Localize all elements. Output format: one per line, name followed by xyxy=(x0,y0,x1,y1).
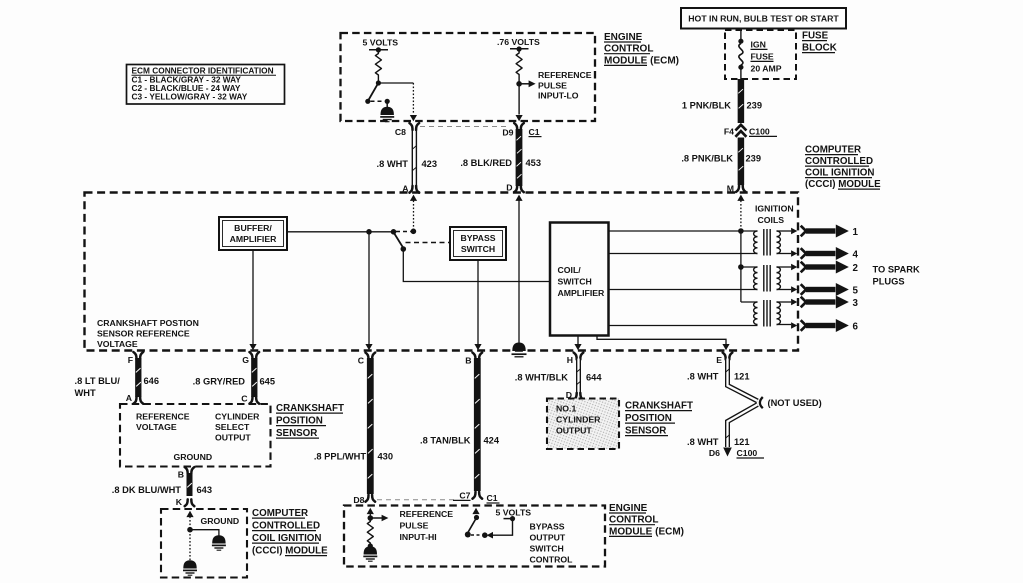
svg-text:.76 VOLTS: .76 VOLTS xyxy=(497,37,540,47)
svg-text:C: C xyxy=(241,393,248,403)
svg-text:VOLTAGE: VOLTAGE xyxy=(97,339,138,349)
svg-text:.8 LT BLU/: .8 LT BLU/ xyxy=(75,376,121,386)
svg-text:5 VOLTS: 5 VOLTS xyxy=(496,508,532,518)
svg-text:C1: C1 xyxy=(529,127,540,137)
svg-text:BLOCK: BLOCK xyxy=(802,43,837,54)
svg-text:COMPUTER: COMPUTER xyxy=(805,145,861,156)
svg-text:646: 646 xyxy=(144,376,160,386)
svg-text:2: 2 xyxy=(853,263,859,274)
svg-text:C1: C1 xyxy=(487,493,498,503)
svg-text:643: 643 xyxy=(197,485,213,495)
svg-text:1: 1 xyxy=(853,227,859,238)
svg-text:D6: D6 xyxy=(709,448,720,458)
svg-text:CONTROL: CONTROL xyxy=(609,515,658,526)
svg-text:(NOT USED): (NOT USED) xyxy=(768,398,822,408)
svg-text:121: 121 xyxy=(734,372,750,382)
svg-text:.8 BLK/RED: .8 BLK/RED xyxy=(460,158,512,168)
svg-text:CONTROLLED: CONTROLLED xyxy=(252,521,320,532)
svg-text:E: E xyxy=(716,355,722,365)
svg-text:PLUGS: PLUGS xyxy=(873,277,905,287)
svg-text:C7: C7 xyxy=(459,491,470,501)
svg-text:424: 424 xyxy=(484,436,500,446)
svg-text:CONTROL: CONTROL xyxy=(530,555,574,565)
svg-text:PULSE: PULSE xyxy=(538,80,567,90)
svg-text:F4: F4 xyxy=(724,126,734,136)
svg-text:SWITCH: SWITCH xyxy=(530,544,564,554)
svg-text:WHT: WHT xyxy=(75,388,96,398)
svg-text:MODULE (ECM): MODULE (ECM) xyxy=(604,55,679,66)
svg-text:AMPLIFIER: AMPLIFIER xyxy=(230,234,278,244)
svg-text:121: 121 xyxy=(734,437,750,447)
svg-text:COILS: COILS xyxy=(758,215,785,225)
svg-text:GROUND: GROUND xyxy=(174,452,213,462)
svg-text:AMPLIFIER: AMPLIFIER xyxy=(558,288,606,298)
svg-text:3: 3 xyxy=(853,298,859,309)
svg-text:SENSOR: SENSOR xyxy=(276,428,317,439)
svg-text:C8: C8 xyxy=(395,127,406,137)
svg-text:B: B xyxy=(178,469,184,479)
svg-text:D: D xyxy=(506,182,512,192)
svg-text:453: 453 xyxy=(526,158,542,168)
svg-text:COIL/: COIL/ xyxy=(558,265,582,275)
svg-text:REFERENCE: REFERENCE xyxy=(538,70,592,80)
svg-text:BYPASS: BYPASS xyxy=(530,522,565,532)
svg-text:645: 645 xyxy=(260,376,276,386)
svg-text:SENSOR REFERENCE: SENSOR REFERENCE xyxy=(97,329,190,339)
svg-text:SWITCH: SWITCH xyxy=(461,244,495,254)
svg-text:IGN: IGN xyxy=(751,40,766,50)
svg-text:CRANKSHAFT POSTION: CRANKSHAFT POSTION xyxy=(97,318,199,328)
svg-text:SELECT: SELECT xyxy=(215,422,250,432)
svg-text:NO.1: NO.1 xyxy=(556,404,576,414)
svg-text:1 PNK/BLK: 1 PNK/BLK xyxy=(682,101,731,111)
svg-text:OUTPUT: OUTPUT xyxy=(556,426,592,436)
svg-text:.8 GRY/RED: .8 GRY/RED xyxy=(193,376,246,386)
svg-text:OUTPUT: OUTPUT xyxy=(530,533,566,543)
svg-text:REFERENCE: REFERENCE xyxy=(136,411,190,421)
svg-text:H: H xyxy=(567,355,573,365)
svg-text:HOT IN RUN, BULB TEST OR START: HOT IN RUN, BULB TEST OR START xyxy=(688,14,839,24)
svg-text:.8 WHT: .8 WHT xyxy=(687,437,719,447)
svg-text:REFERENCE: REFERENCE xyxy=(400,509,454,519)
svg-text:4: 4 xyxy=(853,249,859,260)
svg-text:SWITCH: SWITCH xyxy=(558,277,592,287)
svg-text:CRANKSHAFT: CRANKSHAFT xyxy=(625,401,693,412)
svg-text:COIL IGNITION: COIL IGNITION xyxy=(805,168,875,179)
svg-text:A: A xyxy=(126,393,133,403)
svg-text:K: K xyxy=(176,497,183,507)
svg-text:BYPASS: BYPASS xyxy=(460,233,495,243)
svg-text:.8 DK BLU/WHT: .8 DK BLU/WHT xyxy=(112,485,182,495)
svg-text:OUTPUT: OUTPUT xyxy=(215,433,251,443)
svg-text:(CCCI) MODULE: (CCCI) MODULE xyxy=(805,179,881,190)
svg-text:C100: C100 xyxy=(749,126,770,136)
svg-text:POSITION: POSITION xyxy=(625,413,672,424)
svg-text:MODULE (ECM): MODULE (ECM) xyxy=(609,526,684,537)
svg-text:SENSOR: SENSOR xyxy=(625,426,666,437)
svg-text:(CCCI) MODULE: (CCCI) MODULE xyxy=(252,546,328,557)
svg-text:.8 PPL/WHT: .8 PPL/WHT xyxy=(314,452,366,462)
svg-text:.8 WHT: .8 WHT xyxy=(376,159,408,169)
svg-text:C100: C100 xyxy=(737,448,758,458)
svg-text:239: 239 xyxy=(746,154,762,164)
svg-text:5 VOLTS: 5 VOLTS xyxy=(363,38,399,48)
svg-text:.8 TAN/BLK: .8 TAN/BLK xyxy=(420,436,471,446)
svg-text:5: 5 xyxy=(853,285,859,296)
svg-text:FUSE: FUSE xyxy=(802,31,829,42)
svg-text:.8 WHT: .8 WHT xyxy=(687,372,719,382)
svg-text:C3 - YELLOW/GRAY - 32 WAY: C3 - YELLOW/GRAY - 32 WAY xyxy=(132,92,248,102)
svg-text:.8 WHT/BLK: .8 WHT/BLK xyxy=(515,372,568,382)
svg-text:644: 644 xyxy=(586,372,602,382)
svg-text:VOLTAGE: VOLTAGE xyxy=(136,422,177,432)
svg-text:CYLINDER: CYLINDER xyxy=(556,415,601,425)
svg-text:INPUT-HI: INPUT-HI xyxy=(400,532,437,542)
svg-text:IGNITION: IGNITION xyxy=(755,204,794,214)
svg-text:POSITION: POSITION xyxy=(276,416,323,427)
svg-text:INPUT-LO: INPUT-LO xyxy=(538,91,579,101)
svg-text:PULSE: PULSE xyxy=(400,521,429,531)
svg-text:D9: D9 xyxy=(502,127,513,137)
svg-text:423: 423 xyxy=(422,159,438,169)
svg-text:ENGINE: ENGINE xyxy=(609,503,648,514)
svg-text:COIL IGNITION: COIL IGNITION xyxy=(252,533,322,544)
svg-text:.8 PNK/BLK: .8 PNK/BLK xyxy=(681,154,733,164)
svg-text:G: G xyxy=(242,355,249,365)
svg-text:D8: D8 xyxy=(353,495,364,505)
svg-text:FUSE: FUSE xyxy=(751,52,774,62)
svg-text:6: 6 xyxy=(853,321,859,332)
svg-text:CYLINDER: CYLINDER xyxy=(215,411,260,421)
svg-text:TO SPARK: TO SPARK xyxy=(873,265,920,275)
svg-text:COMPUTER: COMPUTER xyxy=(252,508,308,519)
svg-text:CONTROLLED: CONTROLLED xyxy=(805,156,873,167)
svg-text:BUFFER/: BUFFER/ xyxy=(234,223,272,233)
svg-text:20 AMP: 20 AMP xyxy=(751,64,782,74)
svg-text:B: B xyxy=(465,355,471,365)
svg-text:ENGINE: ENGINE xyxy=(604,32,643,43)
svg-text:CONTROL: CONTROL xyxy=(604,44,653,55)
svg-text:CRANKSHAFT: CRANKSHAFT xyxy=(276,403,344,414)
svg-text:239: 239 xyxy=(747,101,763,111)
svg-text:GROUND: GROUND xyxy=(201,516,240,526)
svg-text:430: 430 xyxy=(378,452,394,462)
svg-text:C: C xyxy=(358,355,365,365)
svg-text:F: F xyxy=(128,355,133,365)
